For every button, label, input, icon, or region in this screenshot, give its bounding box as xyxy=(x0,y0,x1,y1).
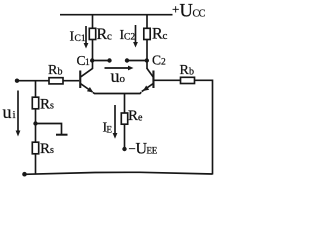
svg-text:EE: EE xyxy=(147,146,158,156)
wire: +Ucc top supply rail xyxy=(60,14,173,16)
arrow ui input polarity xyxy=(16,91,21,137)
label -UEE xyxy=(129,141,158,158)
svg-text:R: R xyxy=(48,63,58,78)
resistor Rs (lower) xyxy=(32,142,38,154)
node: bottom rail left terminal dot xyxy=(22,172,27,177)
svg-text:b: b xyxy=(58,67,63,78)
svg-text:c: c xyxy=(163,30,168,42)
current arrow IE xyxy=(113,105,118,139)
wire: between the two Rs xyxy=(35,109,37,142)
label Rc (left) xyxy=(97,26,113,43)
label +Ucc xyxy=(172,2,206,22)
wire: left base wire from terminal to Rb xyxy=(17,80,49,82)
svg-text:c: c xyxy=(107,31,112,43)
wire: lower Rs to bottom rail xyxy=(35,154,37,174)
label Rb (right) xyxy=(180,63,195,78)
current arrow Ic1 xyxy=(84,26,89,49)
wire: left output lead xyxy=(93,60,110,62)
svg-text:R: R xyxy=(152,26,163,43)
wire: left collector down from Rc to transistor xyxy=(92,40,94,69)
wire: to ground xyxy=(36,124,62,135)
resistor Rb (right) xyxy=(181,77,195,83)
resistor Rb (left) xyxy=(49,78,63,84)
svg-text:C: C xyxy=(152,53,161,68)
svg-text:i: i xyxy=(13,109,16,121)
svg-text:U: U xyxy=(180,2,193,22)
transistor Q2 collector lead xyxy=(147,68,153,77)
transistor Q1 emitter lead with arrow xyxy=(81,84,94,93)
transistor Q1 collector lead xyxy=(81,68,93,77)
resistor Rc (left) xyxy=(89,28,95,39)
svg-text:E: E xyxy=(107,125,113,135)
arrow uo output polarity xyxy=(105,66,134,71)
transistor Q2 emitter lead with arrow xyxy=(142,84,153,92)
label uo xyxy=(111,66,126,86)
node: junction dot between Rs resistors xyxy=(33,121,37,125)
wire: bottom common rail xyxy=(25,172,213,174)
node -UEE terminal dot xyxy=(122,147,126,151)
svg-text:R: R xyxy=(97,26,108,43)
node: right output terminal dot xyxy=(125,58,129,62)
transistor Q2 base bar xyxy=(152,71,154,89)
wire: left Rb to Q1 base xyxy=(63,80,79,82)
svg-text:2: 2 xyxy=(161,58,166,68)
current arrow Ic2 xyxy=(133,25,138,48)
node: input terminal dot (left) xyxy=(15,79,19,83)
svg-text:o: o xyxy=(120,73,126,85)
svg-text:e: e xyxy=(138,113,143,124)
label Rs (lower) xyxy=(40,141,54,157)
resistor Re xyxy=(121,113,127,124)
svg-text:+: + xyxy=(172,2,179,17)
svg-text:R: R xyxy=(180,63,190,78)
label ui xyxy=(3,102,16,122)
wire: Re to -UEE node xyxy=(124,124,126,149)
label Ic2 xyxy=(120,28,136,43)
svg-text:1: 1 xyxy=(85,58,90,68)
transistor Q1 base bar xyxy=(79,71,81,89)
wire: emitter bus to Re xyxy=(124,94,126,114)
label IE xyxy=(103,121,113,136)
svg-text:C2: C2 xyxy=(124,33,135,43)
label Ic1 xyxy=(70,30,86,45)
wire: left collector branch from rail to Rc xyxy=(92,15,94,29)
svg-text:R: R xyxy=(40,97,50,113)
wire: right output lead xyxy=(127,60,147,62)
wire: right collector from rail through Rc to transistor xyxy=(146,15,148,29)
svg-text:CC: CC xyxy=(193,9,206,20)
svg-text:C1: C1 xyxy=(75,34,86,44)
label Rc (right) xyxy=(152,26,168,43)
wire: right Rb to bottom rail xyxy=(195,80,213,174)
label C1 xyxy=(77,53,91,68)
wire: emitter bus xyxy=(93,92,141,93)
svg-text:R: R xyxy=(40,141,50,157)
resistor Rs (upper) xyxy=(32,97,38,109)
svg-text:s: s xyxy=(50,101,54,112)
wire: Q2 base to right Rb xyxy=(155,79,181,81)
svg-text:u: u xyxy=(3,102,12,122)
label Rb (left) xyxy=(48,63,63,78)
ground xyxy=(56,134,68,136)
label Re xyxy=(128,108,143,124)
node C2 junction dot xyxy=(145,58,149,62)
svg-text:R: R xyxy=(128,108,138,124)
resistor Rc (right) xyxy=(144,28,150,39)
node: left output terminal dot xyxy=(107,58,111,62)
node C1 junction dot xyxy=(90,58,94,62)
label Rs (upper) xyxy=(40,97,54,113)
label C2 xyxy=(152,53,166,68)
svg-text:s: s xyxy=(50,145,54,156)
svg-text:u: u xyxy=(111,66,120,86)
svg-text:b: b xyxy=(189,67,194,78)
wire: Rs chain down from base wire xyxy=(35,81,37,98)
wire: right collector below Rc xyxy=(146,40,148,69)
